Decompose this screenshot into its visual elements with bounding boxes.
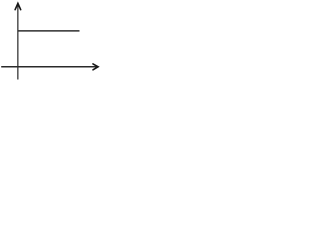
horizontal segment — [18, 30, 80, 32]
y-axis arrowhead — [15, 3, 21, 9]
y-axis — [17, 3, 19, 79]
x-axis arrowhead — [93, 64, 98, 70]
x-axis — [1, 66, 96, 68]
